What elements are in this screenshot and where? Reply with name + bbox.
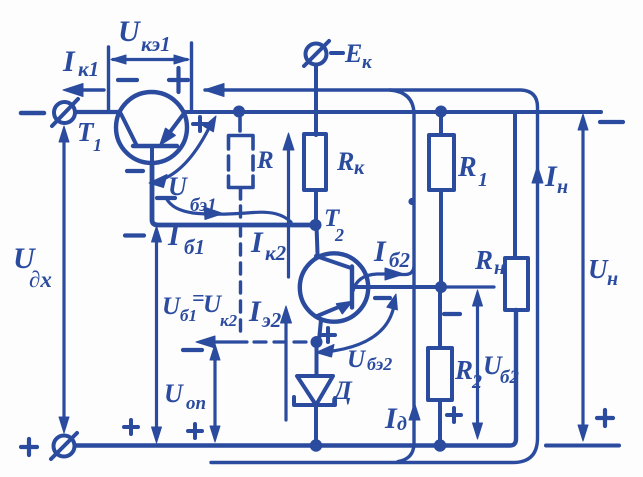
sign: plus right of T1 (193, 117, 207, 131)
wire: emitter node down to diode (315, 342, 319, 376)
arrow: I_н arrowhead on outer loop (532, 166, 543, 183)
arrow: I_д arrowhead on inner loop (409, 403, 420, 420)
sign: minus top right (600, 120, 623, 124)
resistor Rн (505, 112, 528, 310)
wire: right bus segment (546, 444, 619, 448)
label I_к1 (62, 45, 99, 81)
node: dot R1/R2/T2-base junction (435, 281, 447, 293)
sign: plus left of bottom terminal (21, 439, 37, 455)
diode Д (294, 376, 335, 405)
measure U_кэ1: double arrow (111, 55, 189, 64)
svg-text:E: E (344, 39, 362, 68)
measure U_кэ1: right tick (190, 43, 193, 111)
resistor R (dashed, optional) (229, 118, 254, 338)
arrow: I_к2 current arrow (283, 133, 294, 277)
wire: inner loop branch (I_д path) (390, 90, 414, 462)
label -Ek (344, 39, 373, 73)
sign: plus at T2 emitter node (321, 328, 335, 342)
svg-text:U: U (164, 379, 184, 408)
svg-text:н: н (607, 268, 618, 290)
label Rн (474, 245, 505, 279)
node: output terminal (bottom-left) (51, 433, 77, 459)
sign: minus left of reference line (183, 348, 202, 352)
sign: minus at T1 base lower right (157, 196, 175, 200)
svg-text:бэ2: бэ2 (367, 354, 392, 374)
svg-text:б2: б2 (389, 248, 410, 272)
wire: bottom bus (75, 310, 516, 446)
measure U_н vertical double arrow (578, 114, 588, 441)
svg-text:к: к (362, 52, 373, 73)
label U_б2 (483, 351, 519, 388)
svg-text:к1: к1 (78, 57, 99, 81)
svg-text:R: R (454, 355, 473, 385)
node: dot R1 top on rail (435, 106, 447, 118)
sign: plus bottom right (597, 410, 613, 426)
resistor Rk (304, 134, 326, 190)
measure U_кэ1: left tick (107, 47, 110, 111)
arrow: I_э2 current arrow (281, 306, 292, 420)
node: nub where I_б1 meets loop wire (408, 198, 415, 205)
measure: reference line with left arrow (dashed to diode node) (196, 336, 309, 348)
svg-text:б2: б2 (500, 367, 519, 388)
svg-text:к2: к2 (265, 241, 287, 265)
node: input terminal minus sign (21, 111, 44, 116)
label U_бэ1 (168, 172, 217, 216)
label T1 (77, 117, 102, 155)
svg-text:R: R (336, 147, 354, 176)
svg-text:U: U (588, 254, 609, 284)
label Д (332, 376, 353, 405)
node: dot R2/bus junction (434, 439, 446, 451)
label U_кэ1 (118, 15, 171, 56)
label I_б2 (373, 235, 410, 272)
measure U_вх vertical double arrow (59, 126, 69, 433)
sign: plus bottom of U_оп arrow (188, 424, 202, 438)
resistor R1 (429, 114, 454, 284)
label I_н (544, 160, 568, 198)
label U_бэ2 (347, 346, 392, 374)
svg-text:∂х: ∂х (29, 267, 52, 292)
arrow: I_б2 curved current arrow (353, 266, 414, 291)
svg-text:I: I (248, 295, 262, 328)
label R1 (457, 152, 488, 191)
svg-text:U: U (162, 293, 182, 320)
node: dot diode/bus junction (310, 439, 322, 451)
label U_н (588, 254, 618, 290)
svg-text:I: I (544, 160, 558, 193)
label U_б1=U_к2 (162, 285, 238, 330)
measure U_б2 vertical double arrow (473, 290, 483, 439)
arrow: U_бэ1 curved arrow (149, 116, 216, 188)
svg-text:кэ1: кэ1 (141, 32, 171, 56)
svg-text:I: I (250, 226, 264, 259)
svg-text:э2: э2 (261, 308, 282, 332)
svg-text:R: R (474, 245, 493, 275)
sign: U_кэ1 minus (118, 78, 137, 82)
wire: stub right of base node (441, 285, 494, 288)
sign: minus above R2 (444, 312, 460, 316)
label I_к2 (250, 226, 287, 265)
label Rk (336, 147, 365, 179)
sign: plus bottom of U_б1 arrow (124, 420, 138, 434)
svg-text:R: R (457, 152, 477, 183)
label T2 (324, 205, 344, 245)
sign: minus top of U_б1 arrow (125, 233, 144, 237)
transistor T2 (300, 253, 368, 340)
svg-text:I: I (373, 235, 387, 268)
svg-text:I: I (62, 45, 76, 78)
node: junction dot T2 collector / Rk (310, 219, 322, 231)
label R2 (454, 355, 482, 393)
arrow: U_бэ2 curved arrow (316, 294, 397, 357)
wire: diode to bottom bus (314, 406, 318, 444)
measure U_оп vertical double arrow (210, 344, 220, 442)
wire: T2 base lead to R1/R2 node (353, 285, 438, 289)
svg-text:оп: оп (186, 393, 206, 414)
wire: T1 base lead down and right to T2 collector node (152, 163, 312, 225)
node: input terminal (top-left) (52, 99, 78, 126)
label I_б1 (167, 219, 205, 259)
wire: main top rail from T1 right lead to right end (184, 110, 601, 114)
node: dot on rail for dashed R (233, 106, 245, 118)
sign: plus below R2 (447, 408, 461, 422)
svg-text:R: R (256, 147, 274, 174)
label I_э2 (248, 295, 282, 332)
svg-text:н: н (557, 176, 568, 198)
sign: U_кэ1 plus (169, 68, 188, 92)
sign: minus below T1 (127, 169, 143, 173)
sign: minus of -Ek (331, 51, 343, 55)
svg-text:д: д (397, 413, 407, 435)
svg-text:I: I (167, 219, 181, 252)
svg-text:1: 1 (93, 135, 102, 155)
node: -Ek terminal (304, 41, 329, 66)
label U_оп (164, 379, 206, 414)
wire: input terminal to T1 collector (76, 110, 120, 114)
svg-text:U: U (347, 346, 367, 373)
svg-text:1: 1 (478, 169, 488, 191)
wire: -Ek lead down to Rk (314, 65, 318, 136)
svg-text:I: I (384, 402, 398, 435)
transistor T1 (116, 92, 187, 163)
label U_вх (13, 242, 52, 292)
svg-text:2: 2 (334, 225, 344, 245)
arrow: I_б1 curved current arrow (166, 198, 291, 222)
arrow: I_к1 current arrow (63, 84, 104, 97)
wire: current loop (top arrow line, right vertical, bottom return) (204, 84, 538, 463)
svg-text:к: к (354, 157, 365, 179)
svg-text:н: н (494, 257, 505, 279)
label R (256, 147, 274, 174)
resistor R2 (428, 290, 452, 443)
label I_д (384, 402, 407, 435)
node: dot T2 emitter / diode junction (311, 336, 323, 348)
sign: minus at T2 base (375, 296, 390, 300)
svg-text:Д: Д (332, 376, 353, 405)
svg-text:U: U (118, 15, 141, 48)
svg-text:к2: к2 (220, 311, 238, 330)
wire: Rk bottom to T2 collector (316, 190, 318, 254)
svg-text:б1: б1 (184, 235, 205, 259)
measure U_б1=U_к2 vertical double arrow (152, 226, 162, 443)
